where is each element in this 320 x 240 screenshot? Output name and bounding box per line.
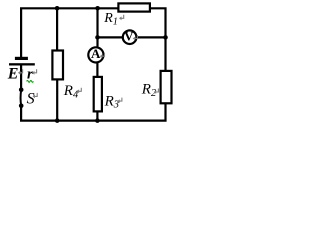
svg-text:R2: R2 [141,82,157,99]
switch S top contact dot [19,88,24,93]
switch S blade [20,90,23,106]
junction dot top rail at R4 branch [55,6,60,11]
spellcheck squiggle under r [27,81,34,83]
resistor R2 box [161,71,172,103]
formatting mark after V (voltmeter) [133,35,138,40]
formatting mark after R4 [77,88,82,93]
svg-text:E: E [7,65,19,82]
wire: R1 right to right rail down to R2 top [150,8,166,70]
wire: bottom rail from switch to R2 [21,104,165,121]
wire: R4 bottom lead [56,80,58,121]
svg-text:R3: R3 [104,93,119,110]
wire: R4 branch top [56,8,58,50]
formatting mark after R2 [154,89,159,94]
svg-text:A: A [91,46,101,61]
junction dot at right rail voltmeter node [163,35,168,40]
wire: top-left loop (left vertical + top horizontal) [21,8,118,57]
wire: voltmeter right lead [137,36,166,38]
switch S bottom contact dot [19,104,24,109]
formatting mark after R1 [119,15,124,20]
svg-text:R4: R4 [63,83,79,100]
junction dot at ammeter/voltmeter node [95,35,100,40]
svg-text:R1: R1 [103,11,118,27]
voltmeter V circle [123,30,137,44]
battery E long thin plate [9,63,35,65]
svg-text:r: r [27,66,33,82]
wire: ammeter to R3 [96,63,98,78]
formatting mark after E [18,69,23,74]
junction dot bottom rail at R3 branch [95,118,100,123]
svg-text:V: V [124,29,134,44]
battery E short thick plate [15,57,28,60]
resistor R4 box [52,51,63,80]
wire: R3 bottom lead [96,112,98,121]
junction dot top rail at ammeter branch [95,6,100,11]
resistor R3 box [94,77,102,112]
svg-text:S: S [27,91,35,108]
resistor R1 box [118,3,149,11]
formatting mark after S [33,93,38,98]
junction dot bottom rail at R4 branch [55,118,60,123]
ammeter A circle [88,47,103,62]
wire: ammeter branch top [96,8,98,46]
formatting mark after R3 [117,98,122,103]
wire: voltmeter left lead [98,36,123,38]
formatting mark after A (ammeter) [100,53,105,58]
wire: battery bottom to switch [20,65,22,90]
formatting mark after r [32,69,37,74]
